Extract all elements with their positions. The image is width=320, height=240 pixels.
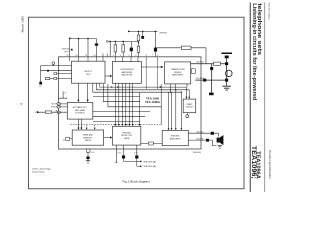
svg-text:7: 7 bbox=[152, 54, 153, 56]
svg-text:8: 8 bbox=[146, 55, 147, 57]
bus line 9 bbox=[93, 120, 140, 122]
svg-text:(2) See Fig.3.: (2) See Fig.3. bbox=[32, 172, 45, 174]
wire W4 bbox=[45, 78, 72, 80]
wire 40 ohm L bbox=[59, 91, 68, 98]
rail D (VBB branch) bbox=[155, 48, 206, 64]
wire W2 bbox=[41, 70, 72, 72]
wire VBB vertical bbox=[154, 31, 156, 56]
wire pin15 up bbox=[87, 39, 89, 57]
ringer rail bbox=[226, 58, 228, 86]
wire down C10 bbox=[87, 152, 89, 160]
dashed drop 1 bbox=[86, 125, 88, 128]
wire RGb bbox=[195, 79, 226, 81]
junction blob RGb-rail bbox=[225, 79, 228, 82]
junction dot R5/R6 bbox=[138, 42, 140, 44]
svg-text:C1: C1 bbox=[39, 86, 41, 88]
bus vert b bbox=[95, 83, 97, 90]
footnote arrow 1 bbox=[139, 160, 141, 162]
arrowheads into blocks bbox=[77, 100, 79, 103]
svg-text:March 1992: March 1992 bbox=[21, 16, 25, 33]
wire supply to amp bbox=[105, 75, 111, 77]
block: TRANSDUCER DRIVER AMPLIFIER U1c bbox=[165, 62, 191, 84]
bus line 3 bbox=[93, 91, 182, 93]
svg-text:(10) RGb: (10) RGb bbox=[196, 78, 204, 80]
header rule (inner) bbox=[249, 3, 251, 193]
junction dot rail B left bbox=[128, 31, 130, 33]
cap C7 blob bbox=[210, 67, 213, 70]
ground C10 bbox=[86, 161, 90, 164]
ground speaker bbox=[218, 145, 222, 148]
cap blob d1 bbox=[122, 155, 125, 158]
resistor R5 bbox=[137, 35, 140, 41]
terminal stub bbox=[52, 65, 54, 66]
svg-text:4: 4 bbox=[20, 103, 24, 105]
ringer plate bbox=[226, 71, 228, 77]
svg-text:12: 12 bbox=[63, 139, 65, 141]
capacitor C5 (blob) bbox=[130, 48, 133, 52]
svg-text:15: 15 bbox=[85, 55, 87, 57]
pin leads into blocks bbox=[70, 57, 139, 62]
stub end tick bbox=[115, 162, 117, 164]
wire to footnote arrow 1 bbox=[124, 159, 140, 162]
bus vert d bbox=[102, 84, 104, 102]
block: PEAK AND MEMORY LATCH U1f bbox=[72, 130, 103, 145]
cap blob d2 bbox=[135, 155, 138, 158]
svg-text:DETECTOR: DETECTOR bbox=[121, 135, 133, 137]
svg-text:C10: C10 bbox=[91, 152, 94, 154]
svg-text:5: 5 bbox=[129, 55, 130, 57]
capacitor C5 lead bbox=[130, 42, 132, 57]
resistor R10 on RGa bbox=[214, 62, 221, 65]
chip outline TEA1096 bbox=[59, 57, 202, 149]
svg-text:(pin): (pin) bbox=[64, 51, 68, 53]
block: RINGING AMPLIFIER U1h bbox=[162, 130, 188, 145]
block: SUPPLY U1a bbox=[72, 61, 106, 83]
pin box on driver right bbox=[191, 69, 195, 74]
header rule (outer) bbox=[264, 3, 266, 193]
pin box W3 bbox=[54, 73, 57, 75]
bus line 7 bbox=[93, 111, 150, 113]
junction dot rail A bbox=[78, 38, 80, 40]
inner resistor R9 between ringing blocks bbox=[141, 143, 162, 145]
block: RINGING DETECTOR GATE U1g bbox=[113, 126, 141, 145]
svg-text:9: 9 bbox=[157, 55, 158, 57]
junction dot rail A left bbox=[69, 38, 71, 40]
wire LSa bbox=[188, 133, 218, 136]
arrowheads into start circuit bbox=[186, 97, 188, 99]
speaker BZ1 bbox=[217, 138, 220, 143]
wire mute stub bbox=[59, 103, 68, 105]
block: ACTIVATE DTC AND GAIN CONTROL U1e bbox=[67, 102, 93, 119]
capacitor C4 (blob on pin16) bbox=[95, 43, 98, 45]
svg-text:LISTENING-IN: LISTENING-IN bbox=[120, 69, 134, 71]
pin box mode bbox=[57, 106, 60, 108]
svg-text:MGD410: MGD410 bbox=[193, 152, 201, 154]
svg-text:(13) LSb: (13) LSb bbox=[196, 138, 203, 140]
svg-text:START: START bbox=[186, 103, 193, 106]
resistor R3 bbox=[114, 45, 117, 52]
amp down wires bbox=[114, 83, 116, 124]
junction dot rail C 1 bbox=[109, 41, 111, 43]
foot blob below RGb bbox=[209, 93, 214, 96]
driver bottom vert bbox=[160, 84, 162, 125]
svg-text:Fig.1 Block diagram.: Fig.1 Block diagram. bbox=[123, 180, 151, 184]
ground ringer bbox=[222, 86, 231, 90]
page background bbox=[0, 0, 292, 207]
wire supply down 2 bbox=[87, 83, 89, 100]
wire to footnote arrow 2 bbox=[137, 159, 140, 167]
capacitor C6 lead bbox=[142, 31, 144, 36]
ringing top right vert bbox=[139, 92, 141, 124]
junction dots bus bbox=[111, 86, 112, 87]
svg-text:3: 3 bbox=[113, 55, 114, 57]
resistor R7 bbox=[181, 46, 191, 49]
svg-text:(14) LSa: (14) LSa bbox=[196, 132, 204, 134]
bus line 6 bbox=[108, 106, 161, 108]
junction dot rail B C6 bbox=[142, 31, 144, 33]
input arrow LB bbox=[37, 111, 40, 113]
wire RGa bbox=[191, 63, 227, 65]
svg-text:* TEA 1096 (A): * TEA 1096 (A) bbox=[142, 165, 156, 168]
bus line 4 bbox=[93, 96, 140, 98]
top pin labels bbox=[67, 55, 158, 57]
cap C8 blob on RGb bbox=[203, 79, 206, 82]
svg-text:4: 4 bbox=[120, 55, 121, 57]
svg-text:MUTE: MUTE bbox=[52, 103, 58, 105]
ringer circle bbox=[226, 70, 233, 77]
pad LSb bbox=[206, 139, 209, 142]
svg-text:ACTIVATE DTC: ACTIVATE DTC bbox=[73, 106, 88, 109]
tick square bbox=[71, 49, 73, 51]
driver bottom vert 2 bbox=[169, 84, 171, 92]
svg-text:(11) RGa: (11) RGa bbox=[196, 61, 205, 63]
svg-text:MODE: MODE bbox=[51, 106, 58, 108]
wire activate down 1 bbox=[78, 119, 80, 128]
cap C10 blob bbox=[86, 157, 89, 160]
bus vert e bbox=[107, 84, 109, 107]
svg-text:SUPPLY: SUPPLY bbox=[84, 71, 92, 73]
block: START CIRCUIT U1d bbox=[183, 99, 196, 113]
resistor R5 leads bbox=[138, 31, 140, 46]
svg-text:* TEA 1096 (A): * TEA 1096 (A) bbox=[142, 160, 156, 163]
svg-text:TRANSDUCER: TRANSDUCER bbox=[171, 68, 185, 71]
bus line 5 bbox=[103, 101, 139, 103]
svg-text:AMPLIFIER: AMPLIFIER bbox=[170, 137, 181, 140]
svg-text:CIRCUIT: CIRCUIT bbox=[185, 107, 194, 109]
rail C bbox=[107, 40, 138, 42]
svg-text:DRIVER: DRIVER bbox=[174, 72, 182, 74]
svg-text:AND GAIN: AND GAIN bbox=[75, 109, 85, 112]
resistor R8 on LB wire bbox=[45, 111, 52, 113]
start circuit feed verts bbox=[185, 87, 187, 97]
wire supply down 1 bbox=[77, 83, 79, 100]
wire peak to ringing detector bbox=[104, 137, 111, 139]
resistor R4 leads bbox=[122, 41, 124, 56]
arrowheads into ringing detector bbox=[114, 124, 116, 126]
cap top plate bbox=[221, 53, 232, 55]
pin stubs below ringing detector bbox=[116, 145, 137, 163]
svg-text:(1) R1 = 620 Ω (typ).: (1) R1 = 620 Ω (typ). bbox=[32, 167, 51, 170]
junction dot rail C 3 bbox=[122, 41, 124, 43]
wire pin14 up bbox=[78, 39, 80, 57]
svg-text:14: 14 bbox=[76, 55, 78, 57]
svg-text:6: 6 bbox=[136, 55, 137, 57]
bus vert a bbox=[92, 83, 94, 92]
wire pin16 up bbox=[96, 39, 98, 57]
junction dot rail B R5 bbox=[138, 31, 140, 33]
wire bus left vertical bbox=[40, 66, 42, 82]
junction dot rail A 2 bbox=[87, 38, 89, 40]
resistor R4 bbox=[122, 45, 125, 52]
figure frame bbox=[29, 17, 245, 189]
block label SUPPLY bbox=[73, 68, 194, 142]
svg-text:RINGING: RINGING bbox=[171, 136, 180, 138]
ringing amp feed verts bbox=[168, 92, 170, 128]
footnote arrow 2 bbox=[139, 165, 141, 167]
resistor R6 bbox=[137, 46, 140, 52]
svg-text:Philips Semiconductors: Philips Semiconductors bbox=[268, 3, 271, 21]
svg-text:AMPLIFIER: AMPLIFIER bbox=[172, 74, 183, 77]
svg-text:AMPLIFIER: AMPLIFIER bbox=[122, 71, 133, 74]
bus line 1 bbox=[100, 86, 187, 88]
bus vert c bbox=[99, 83, 101, 87]
wire LB input bbox=[39, 111, 67, 113]
bus line 8 bbox=[93, 116, 145, 118]
resistor R6 bottom lead bbox=[138, 52, 140, 57]
svg-text:Product specification: Product specification bbox=[268, 150, 272, 179]
resistor R3 leads bbox=[114, 41, 116, 56]
rail C left terminal bbox=[106, 41, 108, 43]
wire mode stub bbox=[59, 106, 68, 108]
svg-text:4.7: 4.7 bbox=[64, 92, 67, 94]
svg-text:RINGING: RINGING bbox=[122, 132, 131, 134]
junction dot W2 bbox=[47, 70, 49, 72]
wire W3 bbox=[54, 73, 72, 75]
pin box mute bbox=[57, 103, 60, 105]
cap vert between bbox=[211, 64, 213, 80]
svg-text:TEA 1096A: TEA 1096A bbox=[145, 100, 161, 104]
junction dot rail B VBB bbox=[155, 31, 157, 33]
junction blob RGa-rail bbox=[225, 62, 228, 65]
dashed drop 2 bbox=[94, 125, 96, 128]
wire LSb bbox=[188, 140, 216, 146]
svg-text:+VB/VDD: +VB/VDD bbox=[159, 32, 168, 34]
vert below RGb bbox=[210, 80, 212, 93]
cap top blob bbox=[225, 56, 229, 59]
wire W1 LN bbox=[41, 65, 72, 67]
pad LSa bbox=[211, 132, 214, 135]
svg-text:16: 16 bbox=[94, 55, 96, 57]
svg-text:LATCH: LATCH bbox=[85, 139, 92, 142]
svg-text:TEA1096A: TEA1096A bbox=[255, 151, 261, 179]
pin box C10 bbox=[86, 149, 90, 152]
terminal circle LN bbox=[52, 62, 55, 65]
rail B bbox=[129, 30, 158, 32]
arrowheads into ringing amplifier bbox=[168, 128, 170, 130]
svg-text:13: 13 bbox=[67, 55, 69, 57]
rail A (VB rail) bbox=[70, 38, 97, 40]
capacitor C9 blob on VBB line bbox=[154, 48, 157, 52]
wire activate down 2 bbox=[80, 119, 82, 128]
bus line 2 bbox=[96, 89, 189, 91]
pin stubs activate bbox=[59, 104, 68, 107]
wire pin13 up bbox=[69, 39, 71, 57]
svg-text:MEMORY: MEMORY bbox=[83, 137, 93, 139]
start circuit pin circle bbox=[186, 113, 188, 115]
svg-text:AND MUTE: AND MUTE bbox=[122, 74, 133, 77]
pin box lb bbox=[57, 111, 60, 113]
bus lines bbox=[93, 83, 189, 128]
capacitor C1 blob bottom of bus bbox=[39, 82, 42, 85]
wire pin down from rail C bbox=[109, 41, 111, 56]
top pin stubs nc bbox=[103, 54, 157, 90]
pin box W4 bbox=[54, 77, 57, 79]
resistor R2 on W4 bbox=[45, 77, 50, 79]
wire amp to driver bbox=[141, 66, 163, 68]
pin box peak left bbox=[66, 138, 73, 140]
svg-text:VDD: VDD bbox=[86, 74, 91, 76]
junction dot rail C 2 bbox=[115, 41, 117, 43]
capacitor C6 blob bbox=[141, 36, 144, 39]
svg-text:PEAK AND: PEAK AND bbox=[83, 134, 94, 137]
svg-text:GATE: GATE bbox=[124, 137, 130, 140]
svg-text:telephone sets: telephone sets bbox=[256, 3, 262, 55]
block: LISTENING-IN AMPLIFIER U1b bbox=[112, 62, 141, 84]
svg-text:4.7 k: 4.7 k bbox=[118, 152, 122, 154]
dashed control line bbox=[70, 125, 161, 128]
svg-text:CONTROL: CONTROL bbox=[75, 113, 86, 115]
